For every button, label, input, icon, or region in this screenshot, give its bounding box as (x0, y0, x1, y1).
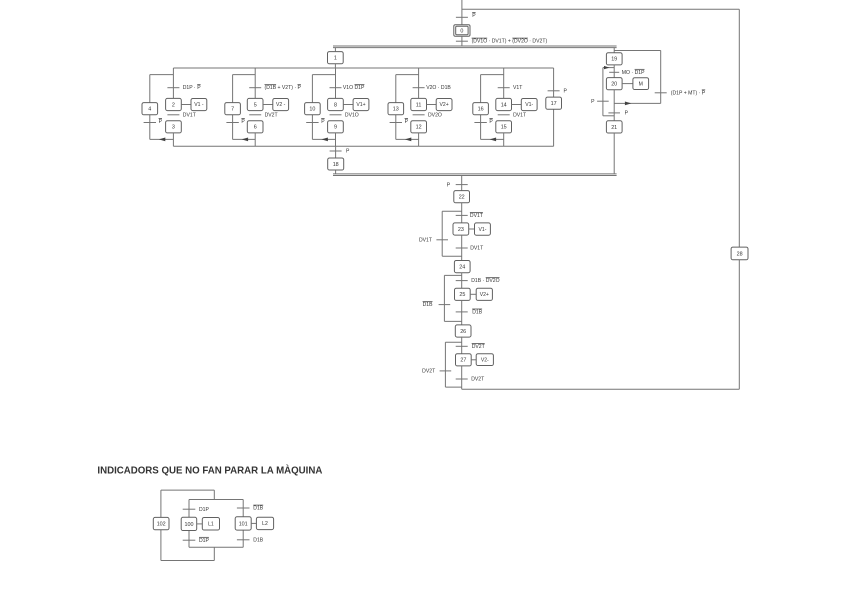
wire: step 18 entry (335, 146, 337, 158)
inner loop top (189, 499, 243, 501)
svg-text:100: 100 (185, 522, 194, 528)
step 102 (153, 517, 169, 529)
wire: step 101 column (242, 500, 244, 548)
wire: column 1 loop return (150, 138, 174, 140)
step 4 (142, 103, 158, 115)
transition entry of step 14 (498, 87, 510, 89)
wire: column 6 vertical (553, 68, 555, 146)
step 101 (235, 517, 251, 530)
svg-text:D1B: D1B (472, 310, 483, 316)
svg-text:L1: L1 (208, 522, 214, 528)
svg-text:D1P · P: D1P · P (183, 85, 202, 91)
action V2+ of step 25 (476, 288, 492, 300)
wire: action link step 25 (470, 293, 476, 295)
action V2 - of step 5 (273, 99, 289, 111)
svg-text:P: P (346, 149, 350, 155)
wire: column 2 main vertical (upper) (254, 68, 256, 98)
svg-text:V1T: V1T (513, 85, 522, 91)
svg-text:14: 14 (501, 102, 507, 108)
svg-text:22: 22 (459, 195, 465, 201)
svg-text:V1O D1P: V1O D1P (343, 85, 365, 91)
wire: column 4 side stub (396, 74, 419, 76)
svg-text:20: 20 (611, 82, 617, 88)
svg-text:3: 3 (172, 125, 175, 131)
transition D1P (above step 100) (183, 508, 196, 510)
svg-text:P: P (591, 99, 595, 105)
wire: action link step 14 (512, 104, 522, 106)
wire: column 2 side stub (233, 74, 256, 76)
junction arrow column 1 (159, 138, 166, 142)
svg-text:2: 2 (172, 102, 175, 108)
svg-text:4: 4 (148, 107, 151, 113)
svg-text:P: P (405, 119, 409, 125)
transition DV1T (below step 23) (456, 247, 468, 249)
step 25 (455, 288, 471, 300)
wire: chain entry (461, 176, 463, 192)
transition P (column 7 bypass) (597, 100, 609, 102)
wire: column 3 loop return (312, 138, 335, 140)
wire: step 18 to double bar (335, 170, 337, 174)
wire: left bypass bottom join (603, 115, 614, 117)
wire: bottom return line (462, 388, 740, 390)
wire: step 100 column (188, 500, 190, 548)
outer loop right vertical (lower) (213, 547, 215, 560)
left bypass vertical (column 7) (602, 68, 604, 116)
wire: double bar to step 1 (334, 48, 336, 52)
bypass 1 vertical (441, 211, 443, 256)
svg-text:V1 -: V1 - (194, 102, 204, 108)
transition P (above step 22) (456, 184, 468, 186)
svg-text:P: P (489, 119, 493, 125)
wire: column 4 side vertical (395, 75, 397, 140)
svg-text:8: 8 (334, 102, 337, 108)
wire: column 3 side vertical (311, 75, 313, 140)
svg-text:V2O · D1B: V2O · D1B (426, 85, 451, 91)
wire: column 5 side vertical (480, 75, 482, 140)
svg-text:0: 0 (460, 29, 463, 35)
bypass 3 top (445, 341, 461, 343)
svg-text:DV2T: DV2T (422, 369, 435, 375)
transition P-bar (column 4 side) (390, 122, 402, 124)
junction arrow column 4 (405, 138, 412, 142)
step 16 (473, 103, 489, 115)
wire: action link step 2 (181, 104, 191, 106)
wire: step 25 to step 26 (461, 300, 463, 325)
svg-text:D1P: D1P (199, 538, 210, 544)
wire: top entry vertical into step 0 (461, 0, 463, 25)
bypass 3 bottom (445, 386, 461, 388)
svg-text:P: P (447, 182, 451, 188)
transition P-bar (column 3 side) (306, 122, 318, 124)
action V1- of step 23 (475, 223, 491, 235)
transition P (above step 17) (548, 90, 560, 92)
inner loop bottom (189, 546, 243, 548)
step 15 (496, 121, 512, 133)
svg-text:19: 19 (611, 57, 617, 63)
action V1 - of step 2 (191, 99, 207, 111)
transition DV2T (below step 27) (456, 378, 468, 380)
svg-text:16: 16 (478, 107, 484, 113)
wire: right loop top (614, 50, 661, 52)
step 10 (305, 103, 321, 115)
transition DV1T (498, 114, 510, 116)
step 1 (328, 52, 344, 64)
step 14 (496, 98, 512, 110)
svg-text:23: 23 (458, 227, 464, 233)
step 23 (453, 223, 469, 235)
transition DV2T (bypass 3) (440, 370, 452, 372)
transition DV2O (413, 114, 425, 116)
svg-text:102: 102 (157, 522, 166, 528)
transition entry of step 8 (330, 87, 342, 89)
wire: column 5 main vertical (upper) (503, 68, 505, 98)
wire: column 2 loop return (233, 138, 256, 140)
wire: action link step 11 (427, 104, 437, 106)
wire: step 23 to step 24 (461, 235, 463, 261)
svg-text:M: M (639, 81, 643, 87)
trunk line (top of columns) (173, 67, 553, 69)
step 27 (456, 354, 472, 366)
wire: right return vertical (upper) (738, 9, 740, 247)
wire: column 7 vertical (step 20 down) (613, 90, 615, 121)
transition entry of step 2 (167, 87, 179, 89)
step 22 (454, 191, 470, 203)
wire: action link step 20 (622, 83, 633, 85)
step 28 (731, 247, 748, 260)
wire: right return vertical (lower) (738, 260, 740, 390)
step 19 (606, 53, 622, 65)
svg-text:(D1P + MT) · P: (D1P + MT) · P (671, 90, 706, 96)
transition D1B-bar (bypass 2) (439, 304, 451, 306)
svg-text:V1+: V1+ (356, 102, 365, 108)
svg-text:21: 21 (611, 125, 617, 131)
svg-text:V2+: V2+ (439, 102, 448, 108)
transition entry of step 5 (249, 87, 261, 89)
transition P-bar (column 2 side) (226, 122, 238, 124)
step 20 (606, 78, 622, 90)
step 26 (455, 325, 471, 337)
bypass 1 top (442, 210, 462, 212)
action L1 of step 100 (202, 518, 219, 531)
transition (D1P+MT).P-bar (655, 92, 667, 94)
wire: step 1 to trunk line (334, 64, 336, 68)
svg-text:D1B: D1B (253, 537, 264, 543)
svg-text:(D1B + V2T) · P: (D1B + V2T) · P (265, 85, 302, 91)
wire: left bypass top join (603, 67, 614, 69)
transition D1B-bar (below step 25) (456, 311, 468, 313)
transition D1B.DV2O-bar (above step 25) (456, 280, 468, 282)
junction arrow column 2 (242, 138, 249, 142)
svg-text:P: P (472, 13, 476, 19)
svg-text:MO · D1P: MO · D1P (622, 70, 645, 76)
transition (DV1O.DV1T)+(DV2O.DV2T) (456, 40, 468, 42)
wire: action link step 100 (197, 523, 203, 525)
svg-text:P: P (564, 88, 568, 94)
collect line (bottom of columns) (173, 145, 553, 147)
svg-text:11: 11 (416, 102, 422, 108)
svg-text:DV1O: DV1O (345, 112, 359, 118)
step 3 (166, 121, 182, 133)
wire: column 4 loop return (396, 138, 419, 140)
wire: step 27 to bottom return (461, 366, 463, 389)
transition P-bar (above step 0) (456, 16, 468, 18)
svg-text:5: 5 (254, 102, 257, 108)
step 17 (546, 97, 562, 109)
svg-text:D1B · DV2O: D1B · DV2O (471, 278, 499, 284)
svg-text:28: 28 (737, 251, 743, 257)
wire: step 26 to step 27 (461, 337, 463, 354)
action V1- of step 14 (521, 99, 537, 111)
svg-text:L2: L2 (262, 521, 268, 527)
wire: step 0 to transition (461, 36, 463, 46)
svg-text:10: 10 (309, 107, 315, 113)
transition P-bar (column 1 side) (144, 122, 156, 124)
wire: column 2 main vertical (lower) (254, 133, 256, 146)
wire: action link step 27 (471, 359, 476, 361)
svg-text:DV2T: DV2T (472, 344, 485, 350)
step 12 (411, 121, 427, 133)
svg-text:P: P (625, 111, 629, 117)
svg-text:V2 -: V2 - (276, 102, 286, 108)
action L2 of step 101 (256, 517, 273, 529)
step 9 (328, 121, 344, 133)
wire: action link step 23 (469, 228, 475, 230)
wire: right loop exit (614, 102, 661, 104)
junction arrow bypass top (604, 66, 610, 69)
svg-text:6: 6 (254, 125, 257, 131)
svg-text:17: 17 (551, 101, 557, 107)
svg-text:13: 13 (393, 107, 399, 113)
svg-text:25: 25 (459, 292, 465, 298)
step 24 (454, 261, 470, 273)
svg-text:24: 24 (459, 265, 465, 271)
transition MO.D1P-bar (609, 71, 619, 73)
svg-text:12: 12 (416, 125, 422, 131)
transition DV2T (249, 114, 261, 116)
step 100 (181, 517, 197, 530)
wire: column 3 main vertical (lower) (335, 133, 337, 146)
bypass 1 bottom (442, 255, 462, 257)
wire: column 7 vertical (step 21 to double bar) (613, 133, 615, 174)
svg-text:15: 15 (501, 125, 507, 131)
step 18 (328, 158, 344, 170)
wire: step 24 to step 25 (461, 273, 463, 289)
transition DV1T (bypass 1) (436, 239, 448, 241)
transition P-bar (column 5 side) (474, 122, 486, 124)
wire: action link step 101 (251, 522, 256, 524)
svg-text:P: P (321, 119, 325, 125)
bypass 2 bottom (444, 320, 461, 322)
svg-text:7: 7 (231, 107, 234, 113)
transition DV2T-bar (above step 27) (456, 345, 468, 347)
svg-text:DV1T: DV1T (470, 213, 483, 219)
action M of step 20 (633, 78, 649, 90)
action V2- of step 27 (476, 354, 493, 366)
wire: column 4 main vertical (upper) (418, 68, 420, 98)
svg-text:DV1T: DV1T (513, 112, 526, 118)
transition entry of step 11 (413, 87, 425, 89)
initial step 0 (double border) (454, 25, 470, 37)
svg-text:V1-: V1- (479, 227, 487, 233)
junction arrow column 3 (321, 138, 328, 142)
wire: column 1 main vertical (upper) (172, 68, 174, 98)
outer loop right vertical (upper) (213, 490, 215, 499)
svg-text:26: 26 (460, 329, 466, 335)
wire: right loop vertical (660, 51, 662, 104)
wire: step 22 to step 23 (461, 203, 463, 223)
wire: column 1 side vertical (149, 75, 151, 140)
transition P (above step 18) (330, 150, 342, 152)
bypass 2 top (444, 274, 461, 276)
wire: column 3 main vertical (upper) (335, 68, 337, 98)
svg-text:9: 9 (334, 125, 337, 131)
wire: action link step 8 (343, 104, 353, 106)
outer loop left vertical (160, 490, 162, 560)
wire: column 7 vertical (double bar to step 19) (613, 48, 615, 53)
svg-text:V1-: V1- (525, 102, 533, 108)
wire: column 7 vertical (step 19 to step 20) (613, 65, 615, 78)
wire: column 1 main vertical (lower) (172, 133, 174, 146)
junction arrow right loop (625, 102, 632, 106)
step 2 (166, 98, 182, 110)
outer loop top (161, 489, 214, 491)
svg-text:INDICADORS QUE NO FAN PARAR LA: INDICADORS QUE NO FAN PARAR LA MÀQUINA (97, 465, 322, 476)
wire: column 5 main vertical (lower) (503, 133, 505, 146)
step 6 (247, 121, 263, 133)
svg-text:101: 101 (239, 521, 248, 527)
step 5 (247, 98, 263, 110)
step 21 (606, 121, 622, 133)
wire: column 5 loop return (481, 138, 504, 140)
wire: column 3 side stub (312, 74, 335, 76)
svg-text:18: 18 (333, 162, 339, 168)
transition DV1T-bar (above step 23) (456, 214, 468, 216)
transition D1B (below step 101) (237, 539, 250, 541)
transition DV1O (330, 114, 342, 116)
svg-text:(DV1O · DV1T) + (DV2O · DV2T): (DV1O · DV1T) + (DV2O · DV2T) (472, 39, 548, 45)
svg-text:DV1T: DV1T (470, 246, 483, 252)
svg-text:D1B: D1B (423, 302, 434, 308)
parallel divergence double bar (top) (333, 45, 617, 47)
step 11 (411, 98, 427, 110)
svg-text:DV2O: DV2O (428, 112, 442, 118)
svg-text:DV1T: DV1T (183, 112, 196, 118)
transition DV1T (167, 114, 179, 116)
svg-text:V2-: V2- (481, 358, 489, 364)
action V2+ of step 11 (436, 99, 452, 111)
svg-text:DV2T: DV2T (265, 112, 278, 118)
junction arrow column 5 (490, 138, 497, 142)
transition P (below step 20) (608, 112, 620, 114)
svg-text:P: P (159, 119, 163, 125)
action V1+ of step 8 (353, 99, 369, 111)
parallel convergence double bar (bottom) (333, 173, 617, 175)
svg-text:D1B: D1B (253, 506, 264, 512)
svg-text:DV1T: DV1T (419, 238, 432, 244)
transition D1B-bar (above step 101) (237, 507, 250, 509)
wire: column 4 main vertical (lower) (418, 133, 420, 146)
wire: column 5 side stub (481, 74, 504, 76)
svg-text:V2+: V2+ (480, 292, 489, 298)
bypass 2 vertical (443, 275, 445, 321)
svg-text:P: P (241, 119, 245, 125)
svg-text:D1P: D1P (199, 507, 210, 513)
bypass 3 vertical (444, 342, 446, 387)
svg-text:27: 27 (460, 358, 466, 364)
step 7 (225, 103, 241, 115)
wire: column 1 side stub (150, 74, 174, 76)
outer loop bottom (161, 560, 214, 562)
step 13 (388, 103, 404, 115)
svg-text:1: 1 (334, 56, 337, 62)
wire: top return line (462, 8, 739, 10)
wire: action link step 5 (263, 104, 273, 106)
svg-text:DV2T: DV2T (471, 377, 484, 383)
step 8 (328, 98, 344, 110)
transition D1P-bar (below step 100) (183, 539, 196, 541)
wire: column 2 side vertical (232, 75, 234, 140)
